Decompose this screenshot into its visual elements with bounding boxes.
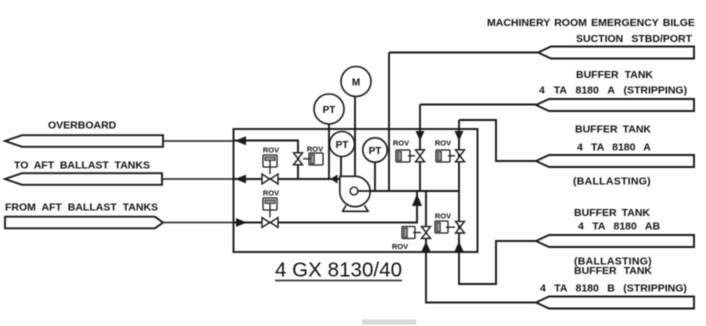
- svg-text:PT: PT: [323, 105, 336, 116]
- svg-text:4 GX 8130/40: 4 GX 8130/40: [275, 259, 402, 282]
- svg-text:ROV: ROV: [392, 242, 408, 251]
- svg-text:BUFFER TANK: BUFFER TANK: [574, 265, 652, 277]
- svg-text:TO AFT BALLAST TANKS: TO AFT BALLAST TANKS: [14, 160, 150, 172]
- svg-text:ROV: ROV: [435, 139, 451, 148]
- svg-text:(BALLASTING): (BALLASTING): [573, 175, 651, 187]
- svg-text:BUFFER TANK: BUFFER TANK: [575, 124, 651, 136]
- svg-text:ROV: ROV: [435, 212, 451, 221]
- svg-text:ROV: ROV: [307, 145, 323, 154]
- svg-text:PT: PT: [336, 140, 349, 151]
- svg-text:MACHINERY ROOM EMERGENCY BILGE: MACHINERY ROOM EMERGENCY BILGE: [487, 17, 695, 29]
- svg-text:BUFFER TANK: BUFFER TANK: [574, 207, 650, 219]
- svg-text:M: M: [352, 78, 360, 89]
- svg-text:OVERBOARD: OVERBOARD: [48, 120, 117, 132]
- svg-text:4 TA 8180 AB: 4 TA 8180 AB: [578, 221, 660, 233]
- svg-text:4 TA 8180 A: 4 TA 8180 A: [577, 142, 651, 154]
- svg-text:SUCTION STBD/PORT: SUCTION STBD/PORT: [576, 33, 693, 45]
- svg-text:PT: PT: [369, 146, 382, 157]
- svg-text:ROV: ROV: [263, 146, 279, 155]
- svg-text:BUFFER TANK: BUFFER TANK: [576, 69, 653, 81]
- svg-text:FROM AFT BALLAST TANKS: FROM AFT BALLAST TANKS: [5, 202, 158, 214]
- svg-text:ROV: ROV: [263, 189, 279, 198]
- svg-text:ROV: ROV: [393, 139, 409, 148]
- svg-text:4 TA 8180 A (STRIPPING): 4 TA 8180 A (STRIPPING): [539, 84, 687, 96]
- svg-text:4 TA 8180 B (STRIPPING): 4 TA 8180 B (STRIPPING): [540, 283, 687, 295]
